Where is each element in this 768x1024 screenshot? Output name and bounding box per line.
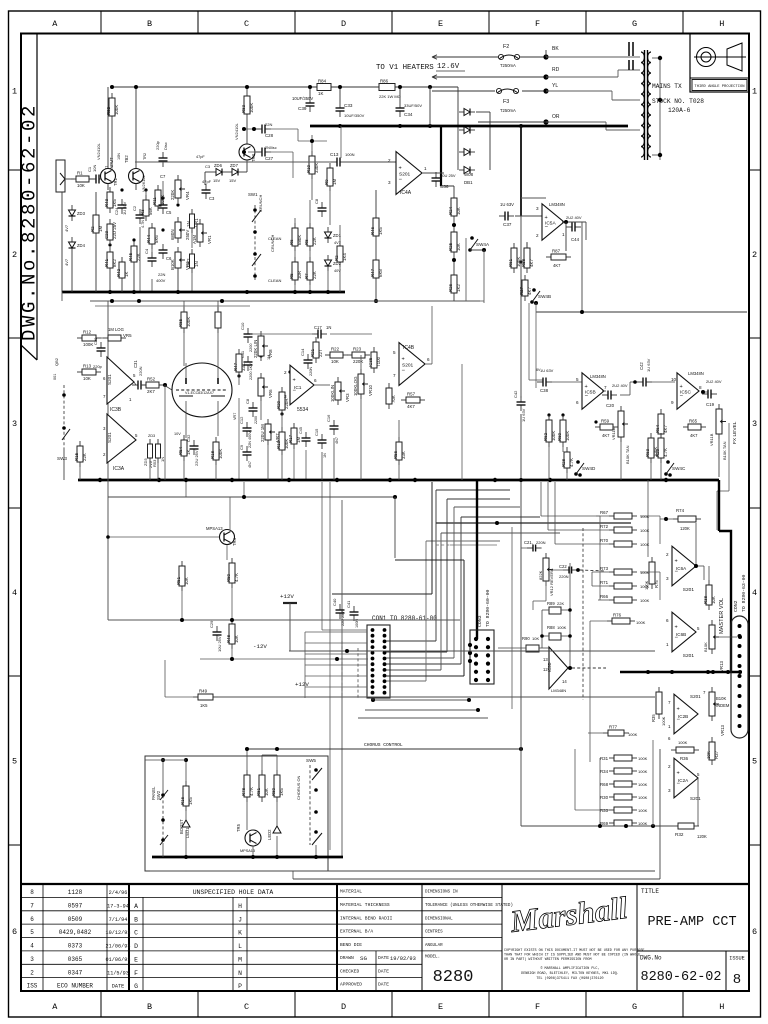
svg-text:2: 2 bbox=[284, 370, 287, 375]
svg-text:R32: R32 bbox=[675, 832, 684, 837]
svg-text:100K: 100K bbox=[638, 808, 648, 813]
svg-text:B10K: B10K bbox=[703, 642, 708, 652]
svg-text:R18: R18 bbox=[210, 450, 215, 459]
svg-text:V1-ECC83/12AX7: V1-ECC83/12AX7 bbox=[185, 391, 214, 395]
svg-text:1N: 1N bbox=[326, 325, 331, 330]
svg-text:S201: S201 bbox=[690, 694, 701, 699]
svg-text:R16: R16 bbox=[180, 796, 185, 805]
svg-text:R48: R48 bbox=[226, 634, 231, 643]
svg-text:1128: 1128 bbox=[68, 889, 83, 896]
svg-text:3: 3 bbox=[284, 394, 287, 399]
svg-text:220U 1M: 220U 1M bbox=[260, 424, 265, 442]
svg-text:ISS: ISS bbox=[27, 983, 38, 990]
svg-text:INPUT: INPUT bbox=[109, 157, 114, 170]
svg-text:R50: R50 bbox=[226, 573, 231, 582]
svg-text:4V7: 4V7 bbox=[64, 224, 69, 232]
svg-text:680N: 680N bbox=[170, 230, 175, 241]
svg-text:CHORUS ON: CHORUS ON bbox=[296, 775, 301, 800]
svg-text:D: D bbox=[341, 1002, 346, 1012]
svg-text:6K8: 6K8 bbox=[378, 269, 383, 277]
svg-text:TR4: TR4 bbox=[232, 537, 237, 546]
svg-text:R19: R19 bbox=[276, 440, 281, 449]
svg-text:1U 63V: 1U 63V bbox=[122, 201, 127, 215]
svg-text:7/1/94: 7/1/94 bbox=[109, 917, 128, 923]
svg-text:C41: C41 bbox=[346, 600, 351, 608]
svg-text:ANGULAR: ANGULAR bbox=[425, 944, 443, 948]
svg-text:CENTRES: CENTRES bbox=[425, 931, 443, 935]
svg-text:400V: 400V bbox=[156, 278, 166, 283]
svg-text:COPYRIGHT EXISTS ON THIS DOCUM: COPYRIGHT EXISTS ON THIS DOCUMENT-IT MUS… bbox=[504, 949, 644, 953]
svg-text:R13: R13 bbox=[83, 364, 92, 369]
svg-text:C42: C42 bbox=[513, 390, 518, 398]
svg-text:1K2: 1K2 bbox=[456, 284, 461, 292]
svg-text:1U 63V: 1U 63V bbox=[646, 358, 651, 372]
svg-text:VN2410L: VN2410L bbox=[234, 123, 239, 140]
svg-text:CHORUS CONTROL: CHORUS CONTROL bbox=[364, 742, 403, 748]
svg-text:R49: R49 bbox=[199, 689, 208, 694]
svg-text:22K: 22K bbox=[557, 601, 564, 606]
svg-text:822K: 822K bbox=[538, 570, 543, 580]
svg-text:2N0isc: 2N0isc bbox=[265, 146, 277, 150]
svg-text:10K: 10K bbox=[456, 207, 461, 215]
svg-text:10K: 10K bbox=[83, 376, 91, 381]
svg-text:R10: R10 bbox=[306, 164, 311, 173]
svg-text:100K: 100K bbox=[114, 105, 119, 115]
svg-text:M: M bbox=[238, 956, 242, 963]
svg-text:IC3B: IC3B bbox=[110, 407, 122, 413]
svg-text:DWG.No.8280-62-02: DWG.No.8280-62-02 bbox=[19, 103, 41, 341]
svg-text:© MARSHALL AMPLIFICATION PLC,: © MARSHALL AMPLIFICATION PLC, bbox=[540, 966, 599, 971]
svg-text:H: H bbox=[238, 903, 242, 910]
svg-text:4K7: 4K7 bbox=[529, 259, 534, 267]
svg-text:C8: C8 bbox=[245, 398, 250, 404]
svg-text:220N: 220N bbox=[559, 574, 569, 579]
svg-text:R57: R57 bbox=[407, 392, 416, 397]
svg-text:0509: 0509 bbox=[68, 916, 83, 923]
svg-text:VR10: VR10 bbox=[368, 384, 373, 396]
svg-text:1: 1 bbox=[12, 87, 17, 97]
svg-text:DATE: DATE bbox=[378, 955, 389, 961]
svg-text:R87: R87 bbox=[552, 249, 561, 254]
svg-text:R26: R26 bbox=[448, 283, 453, 292]
svg-text:220N: 220N bbox=[138, 366, 143, 376]
svg-text:R83: R83 bbox=[241, 104, 246, 113]
svg-text:VR4: VR4 bbox=[185, 191, 190, 200]
svg-text:EXTERNAL B/A: EXTERNAL B/A bbox=[340, 929, 373, 935]
svg-text:VR8: VR8 bbox=[268, 349, 273, 358]
svg-text:1N: 1N bbox=[186, 221, 191, 227]
svg-text:R30: R30 bbox=[600, 795, 609, 800]
svg-text:4K7: 4K7 bbox=[690, 433, 698, 438]
svg-text:70K: 70K bbox=[391, 395, 396, 403]
svg-text:STOCK NO. T028: STOCK NO. T028 bbox=[652, 98, 704, 105]
svg-text:C7: C7 bbox=[160, 174, 166, 179]
svg-text:C: C bbox=[134, 930, 138, 937]
svg-text:G: G bbox=[632, 19, 637, 29]
svg-text:C8: C8 bbox=[314, 198, 319, 204]
svg-text:VR6: VR6 bbox=[268, 389, 273, 398]
svg-text:THAN THAT FOR WHICH IT IS SUPP: THAN THAT FOR WHICH IT IS SUPPLIED AND M… bbox=[504, 953, 640, 958]
svg-text:1: 1 bbox=[668, 724, 671, 729]
svg-text:S201: S201 bbox=[690, 796, 701, 801]
svg-text:C12: C12 bbox=[239, 416, 244, 424]
svg-text:R61: R61 bbox=[508, 258, 513, 267]
svg-text:R80: R80 bbox=[271, 787, 276, 796]
svg-text:IC5A: IC5A bbox=[545, 221, 556, 227]
svg-text:+: + bbox=[675, 559, 678, 565]
svg-text:C24: C24 bbox=[114, 207, 119, 215]
svg-text:100K: 100K bbox=[551, 431, 556, 441]
svg-text:15V: 15V bbox=[229, 178, 236, 183]
svg-text:SG: SG bbox=[360, 955, 367, 962]
svg-text:R72: R72 bbox=[600, 524, 609, 529]
svg-text:R71: R71 bbox=[600, 580, 609, 585]
svg-text:4: 4 bbox=[12, 588, 17, 598]
svg-text:R84: R84 bbox=[318, 79, 327, 84]
svg-text:R12: R12 bbox=[83, 330, 92, 335]
svg-text:MAINS TX: MAINS TX bbox=[652, 83, 682, 90]
svg-text:R75: R75 bbox=[654, 580, 659, 588]
svg-text:F: F bbox=[134, 970, 138, 977]
svg-text:B: B bbox=[147, 1002, 152, 1012]
svg-text:R82: R82 bbox=[106, 106, 111, 115]
svg-text:+: + bbox=[402, 356, 405, 362]
svg-text:R63: R63 bbox=[645, 448, 650, 457]
svg-text:8280: 8280 bbox=[433, 968, 474, 987]
svg-text:5: 5 bbox=[576, 377, 579, 382]
svg-text:C9: C9 bbox=[239, 444, 244, 450]
svg-text:47pF: 47pF bbox=[202, 179, 212, 184]
svg-text:R24: R24 bbox=[448, 206, 453, 215]
svg-text:22N: 22N bbox=[265, 122, 272, 127]
svg-text:10N: 10N bbox=[117, 153, 121, 160]
svg-text:100N: 100N bbox=[345, 152, 355, 157]
svg-text:H: H bbox=[719, 1002, 724, 1012]
svg-text:100K: 100K bbox=[218, 449, 223, 459]
svg-text:4.7N: 4.7N bbox=[141, 220, 145, 228]
svg-text:R34: R34 bbox=[600, 769, 609, 774]
svg-text:VR11A: VR11A bbox=[611, 427, 616, 440]
svg-text:22T: 22T bbox=[318, 349, 323, 357]
svg-text:A: A bbox=[52, 19, 58, 29]
svg-text:10U 25V: 10U 25V bbox=[217, 636, 222, 652]
svg-text:10K: 10K bbox=[77, 183, 85, 188]
svg-text:R90: R90 bbox=[522, 636, 530, 641]
svg-text:+: + bbox=[293, 378, 296, 384]
svg-text:0347: 0347 bbox=[68, 969, 83, 976]
svg-text:J: J bbox=[238, 916, 242, 923]
svg-text:A1M: A1M bbox=[192, 235, 197, 244]
svg-text:4.7K: 4.7K bbox=[249, 787, 254, 796]
svg-text:1K5: 1K5 bbox=[200, 703, 208, 708]
svg-text:R41: R41 bbox=[104, 258, 109, 267]
svg-text:001: 001 bbox=[53, 374, 57, 380]
svg-text:1K4: 1K4 bbox=[342, 253, 347, 261]
svg-text:E: E bbox=[438, 1002, 443, 1012]
svg-text:A: A bbox=[134, 903, 138, 910]
svg-text:CRUNCH: CRUNCH bbox=[258, 195, 263, 212]
svg-text:10K: 10K bbox=[456, 243, 461, 251]
svg-text:UNSPECIFIED HOLE DATA: UNSPECIFIED HOLE DATA bbox=[193, 889, 274, 896]
svg-text:7: 7 bbox=[668, 700, 671, 705]
svg-text:−: − bbox=[399, 177, 403, 183]
svg-text:330K: 330K bbox=[314, 163, 319, 173]
svg-text:100K: 100K bbox=[638, 795, 648, 800]
svg-text:BOOST: BOOST bbox=[179, 819, 184, 834]
svg-text:2: 2 bbox=[536, 233, 539, 238]
svg-text:E: E bbox=[134, 956, 138, 963]
svg-text:R9: R9 bbox=[324, 179, 329, 185]
svg-text:T100: T100 bbox=[376, 356, 381, 367]
svg-text:VR1: VR1 bbox=[207, 235, 212, 244]
svg-text:C29: C29 bbox=[209, 620, 214, 628]
svg-text:CLEAN: CLEAN bbox=[268, 278, 281, 283]
svg-text:LM348N: LM348N bbox=[590, 374, 606, 379]
svg-text:1M LOG: 1M LOG bbox=[108, 327, 124, 332]
svg-text:B10K: B10K bbox=[716, 696, 726, 701]
svg-text:C3: C3 bbox=[205, 164, 211, 169]
svg-text:R59: R59 bbox=[601, 419, 610, 424]
svg-text:120A-6: 120A-6 bbox=[668, 107, 691, 114]
svg-text:+: + bbox=[680, 384, 683, 390]
svg-text:TR2: TR2 bbox=[143, 153, 147, 160]
svg-text:4: 4 bbox=[30, 943, 34, 950]
svg-text:C45: C45 bbox=[299, 427, 303, 434]
svg-text:10K: 10K bbox=[711, 596, 716, 604]
svg-text:R3: R3 bbox=[140, 209, 145, 215]
svg-text:1K5: 1K5 bbox=[188, 797, 193, 805]
svg-text:1K5: 1K5 bbox=[279, 788, 284, 796]
svg-text:3: 3 bbox=[12, 419, 17, 429]
svg-text:4K7: 4K7 bbox=[407, 404, 415, 409]
svg-text:47pF: 47pF bbox=[196, 155, 205, 159]
svg-text:B10K: B10K bbox=[170, 259, 175, 270]
svg-text:SW4A: SW4A bbox=[476, 242, 490, 247]
svg-text:ZD4: ZD4 bbox=[77, 243, 86, 248]
svg-text:R28: R28 bbox=[561, 458, 566, 467]
svg-text:2: 2 bbox=[666, 552, 669, 557]
svg-text:100K: 100K bbox=[636, 620, 646, 625]
svg-text:TO 8280-60-00: TO 8280-60-00 bbox=[485, 589, 491, 627]
svg-text:1K: 1K bbox=[186, 450, 191, 455]
svg-text:0597: 0597 bbox=[68, 902, 83, 909]
svg-text:SW3: SW3 bbox=[57, 456, 67, 461]
svg-text:220R: 220R bbox=[284, 399, 289, 410]
svg-text:A: A bbox=[52, 1002, 58, 1012]
svg-text:S201: S201 bbox=[107, 374, 112, 385]
svg-text:IC5D: IC5D bbox=[547, 662, 552, 672]
svg-text:VR3: VR3 bbox=[185, 261, 190, 270]
svg-text:1K: 1K bbox=[318, 91, 323, 96]
svg-text:SW1: SW1 bbox=[248, 192, 258, 197]
svg-text:3: 3 bbox=[666, 576, 669, 581]
svg-text:THIRD ANGLE PROJECTION: THIRD ANGLE PROJECTION bbox=[694, 85, 744, 89]
svg-text:DATE: DATE bbox=[378, 982, 389, 988]
svg-text:2K7: 2K7 bbox=[147, 389, 155, 394]
svg-text:100K: 100K bbox=[565, 431, 570, 441]
svg-text:14: 14 bbox=[562, 679, 567, 684]
svg-text:+: + bbox=[399, 165, 402, 171]
svg-text:SW5: SW5 bbox=[306, 758, 316, 763]
svg-text:SW4D: SW4D bbox=[582, 466, 596, 471]
svg-text:-12V: -12V bbox=[253, 643, 267, 650]
svg-text:R62: R62 bbox=[543, 432, 548, 441]
svg-text:R76: R76 bbox=[613, 613, 622, 618]
svg-text:100K: 100K bbox=[640, 570, 650, 575]
svg-text:R53: R53 bbox=[152, 459, 157, 467]
svg-text:10K: 10K bbox=[706, 751, 711, 759]
svg-text:LED2: LED2 bbox=[267, 829, 272, 840]
svg-text:DATE: DATE bbox=[112, 984, 124, 990]
svg-text:100K: 100K bbox=[557, 625, 567, 630]
svg-text:+: + bbox=[585, 384, 588, 390]
svg-text:OR: OR bbox=[552, 114, 560, 120]
svg-text:6: 6 bbox=[30, 916, 34, 923]
svg-text:+: + bbox=[545, 215, 548, 221]
svg-text:4: 4 bbox=[752, 588, 757, 598]
svg-text:9: 9 bbox=[671, 400, 674, 405]
svg-text:1K: 1K bbox=[124, 272, 129, 277]
svg-text:100KLIN: 100KLIN bbox=[330, 385, 335, 402]
svg-text:100K: 100K bbox=[186, 317, 191, 327]
svg-text:220K LIN: 220K LIN bbox=[253, 340, 258, 358]
svg-text:SW2: SW2 bbox=[156, 790, 161, 800]
svg-text:C23: C23 bbox=[104, 230, 109, 239]
svg-text:22U 25V: 22U 25V bbox=[194, 450, 199, 466]
svg-text:VN2610L: VN2610L bbox=[141, 175, 146, 192]
svg-text:2: 2 bbox=[30, 969, 34, 976]
svg-text:R81: R81 bbox=[256, 787, 261, 796]
svg-text:220N: 220N bbox=[536, 540, 546, 545]
svg-text:1: 1 bbox=[424, 166, 427, 171]
svg-text:3: 3 bbox=[536, 206, 539, 211]
svg-text:4K7: 4K7 bbox=[663, 425, 668, 433]
svg-text:10/12/93: 10/12/93 bbox=[106, 930, 131, 936]
svg-text:ZD6: ZD6 bbox=[214, 163, 223, 168]
svg-text:F: F bbox=[535, 19, 540, 29]
svg-text:22U 25V: 22U 25V bbox=[341, 611, 345, 626]
svg-text:3: 3 bbox=[668, 788, 671, 793]
svg-text:22N 400V: 22N 400V bbox=[248, 431, 252, 448]
svg-text:R52: R52 bbox=[147, 377, 156, 382]
svg-text:R86: R86 bbox=[380, 79, 389, 84]
svg-text:R51: R51 bbox=[176, 576, 181, 585]
svg-text:22K: 22K bbox=[312, 271, 317, 279]
svg-text:TR3: TR3 bbox=[251, 153, 256, 162]
svg-text:R64: R64 bbox=[655, 424, 660, 433]
svg-text:R74: R74 bbox=[676, 508, 685, 513]
svg-text:C20: C20 bbox=[606, 403, 615, 408]
svg-text:10UF/350V: 10UF/350V bbox=[344, 113, 365, 118]
svg-text:2: 2 bbox=[12, 250, 17, 260]
svg-text:R29: R29 bbox=[655, 448, 660, 457]
svg-text:220K: 220K bbox=[353, 359, 363, 364]
svg-text:C33: C33 bbox=[344, 103, 353, 108]
svg-text:2200 1KV: 2200 1KV bbox=[249, 363, 253, 380]
svg-text:R37: R37 bbox=[714, 750, 719, 759]
svg-text:MPSA13: MPSA13 bbox=[206, 526, 223, 531]
svg-text:7: 7 bbox=[30, 902, 34, 909]
svg-text:R38: R38 bbox=[703, 595, 708, 604]
svg-text:100K: 100K bbox=[638, 821, 648, 826]
svg-text:+: + bbox=[677, 707, 680, 713]
svg-text:19/02/93: 19/02/93 bbox=[390, 956, 416, 962]
svg-text:+: + bbox=[675, 625, 678, 631]
svg-text:R47: R47 bbox=[233, 362, 238, 371]
svg-text:33K: 33K bbox=[401, 451, 406, 459]
svg-text:DENBIGH ROAD, BLETCHLEY, MILTO: DENBIGH ROAD, BLETCHLEY, MILTON KEYNES, … bbox=[521, 972, 619, 976]
svg-text:C21,: C21, bbox=[524, 540, 533, 545]
svg-text:CON1 TO 8280-61-00: CON1 TO 8280-61-00 bbox=[372, 615, 437, 622]
svg-text:R8: R8 bbox=[304, 239, 309, 245]
svg-text:100K: 100K bbox=[644, 580, 649, 590]
svg-text:100K: 100K bbox=[249, 103, 254, 113]
svg-text:1: 1 bbox=[752, 87, 757, 97]
svg-text:15V: 15V bbox=[213, 178, 220, 183]
svg-text:MATERIAL: MATERIAL bbox=[340, 889, 362, 895]
svg-text:R89: R89 bbox=[547, 601, 555, 606]
svg-text:4V7: 4V7 bbox=[64, 258, 69, 266]
svg-text:R20: R20 bbox=[276, 400, 281, 409]
svg-text:BEND DIE: BEND DIE bbox=[340, 942, 362, 948]
svg-text:R33: R33 bbox=[600, 808, 609, 813]
svg-text:R56: R56 bbox=[393, 450, 398, 459]
svg-text:13: 13 bbox=[543, 657, 548, 662]
svg-text:1U 63V: 1U 63V bbox=[500, 202, 514, 207]
svg-text:10N: 10N bbox=[92, 165, 97, 172]
svg-text:C17: C17 bbox=[314, 325, 322, 330]
svg-text:TO 8280-63-00: TO 8280-63-00 bbox=[741, 574, 747, 612]
svg-text:C34: C34 bbox=[404, 112, 413, 117]
svg-text:VR7: VR7 bbox=[233, 413, 237, 420]
svg-text:DWG.No: DWG.No bbox=[640, 955, 662, 962]
svg-text:SW4C: SW4C bbox=[672, 466, 686, 471]
svg-text:11/5/93: 11/5/93 bbox=[107, 970, 129, 976]
svg-text:6: 6 bbox=[314, 378, 317, 383]
svg-text:K: K bbox=[238, 930, 242, 937]
svg-text:MASTER VOL: MASTER VOL bbox=[719, 598, 725, 634]
svg-text:4.7K: 4.7K bbox=[663, 448, 668, 457]
svg-text:100K: 100K bbox=[640, 598, 650, 603]
svg-text:680K: 680K bbox=[297, 235, 302, 245]
svg-text:1U 63V: 1U 63V bbox=[540, 368, 554, 373]
svg-text:120K: 120K bbox=[697, 834, 707, 839]
svg-text:CON2: CON2 bbox=[733, 600, 739, 612]
svg-text:C11: C11 bbox=[240, 350, 245, 358]
svg-text:R68: R68 bbox=[600, 782, 609, 787]
svg-text:B10K TAN: B10K TAN bbox=[625, 445, 630, 464]
svg-text:100K: 100K bbox=[160, 195, 165, 205]
svg-text:2U2 40V: 2U2 40V bbox=[612, 383, 628, 388]
svg-text:C37: C37 bbox=[503, 222, 512, 227]
svg-text:ZD3: ZD3 bbox=[77, 211, 86, 216]
svg-text:R42: R42 bbox=[116, 268, 121, 277]
svg-text:R65: R65 bbox=[689, 419, 698, 424]
svg-text:R60: R60 bbox=[557, 432, 562, 441]
svg-text:PRE-AMP CCT: PRE-AMP CCT bbox=[647, 915, 736, 930]
svg-text:100K: 100K bbox=[678, 740, 688, 745]
svg-text:4N7: 4N7 bbox=[248, 461, 252, 468]
svg-text:VR3: VR3 bbox=[345, 393, 350, 402]
svg-text:10U 25V: 10U 25V bbox=[440, 173, 456, 178]
svg-text:IC5B: IC5B bbox=[585, 390, 596, 396]
svg-text:BK: BK bbox=[552, 46, 559, 52]
svg-text:IC1: IC1 bbox=[294, 385, 302, 391]
svg-text:R78: R78 bbox=[241, 787, 246, 796]
svg-text:TB2: TB2 bbox=[124, 155, 129, 163]
svg-text:C44: C44 bbox=[571, 237, 580, 242]
svg-text:56K: 56K bbox=[148, 207, 153, 215]
